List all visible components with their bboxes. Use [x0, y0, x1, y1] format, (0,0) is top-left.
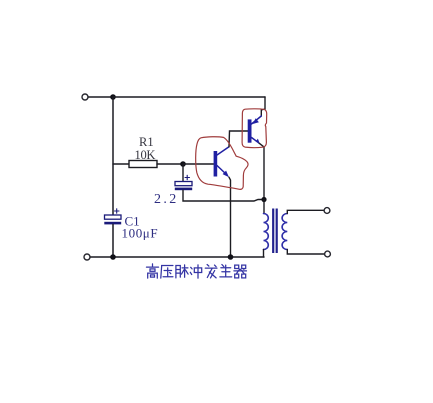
wire Q2 collector to rail: [259, 143, 264, 199]
annotation red loop around Q1: [196, 137, 248, 190]
transistor Q1: [214, 147, 229, 177]
node bottom-emitter junction: [228, 254, 234, 260]
wire Q1 emitter down: [229, 177, 231, 257]
wire C2 bottom to rail: [183, 190, 264, 201]
wire rail to primary: [263, 200, 265, 214]
label C1: [125, 214, 140, 229]
title 高压脉冲发生器: [147, 264, 247, 278]
wire right rail upper: [261, 97, 265, 116]
label 2.2: [154, 192, 179, 207]
wire secondary top lead: [287, 210, 324, 213]
label 10K: [135, 148, 156, 162]
svg-text:2.2: 2.2: [154, 192, 179, 207]
svg-text:100μF: 100μF: [122, 226, 159, 241]
wire Q1 base: [183, 163, 214, 165]
terminal output top: [324, 208, 330, 214]
resistor R1: [113, 161, 183, 168]
annotation red loop around Q2: [242, 109, 267, 148]
wire left rail lower: [112, 224, 114, 257]
svg-text:10K: 10K: [135, 148, 156, 162]
wire Q1 collector to Q2 base: [229, 131, 248, 147]
terminal output bottom: [325, 251, 331, 257]
node R1-base junction: [180, 161, 186, 167]
transistor Q2: [248, 116, 262, 143]
capacitor C2 2.2: [175, 164, 192, 190]
wire left rail upper: [112, 97, 114, 215]
terminal input top: [82, 94, 88, 100]
transformer T1 secondary winding: [282, 214, 287, 250]
wire secondary bottom lead: [287, 250, 324, 255]
node bottom-left junction: [110, 254, 116, 260]
label 100uF: [122, 226, 159, 241]
transformer T1 primary winding: [264, 214, 269, 258]
wire bottom rail: [90, 256, 264, 258]
terminal input bottom: [84, 254, 90, 260]
label R1: [139, 135, 154, 149]
transformer T1 core: [272, 209, 278, 254]
capacitor C1: [104, 209, 121, 225]
node top-left junction: [110, 94, 116, 100]
wire top-left lead: [88, 96, 113, 98]
wire top rail: [113, 96, 265, 98]
node rail-C2 junction: [261, 197, 266, 202]
